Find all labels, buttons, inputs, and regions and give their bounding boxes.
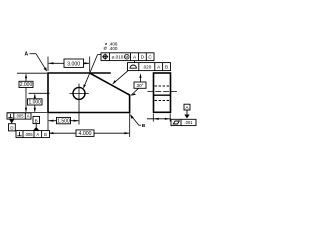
svg-text:⌀: ⌀ — [104, 45, 107, 51]
svg-text:.005: .005 — [24, 132, 33, 137]
svg-text:M: M — [125, 55, 128, 59]
svg-text:.001: .001 — [184, 120, 193, 125]
svg-text:2.000: 2.000 — [20, 82, 33, 88]
svg-text:⌀.010: ⌀.010 — [112, 55, 124, 60]
svg-text:B: B — [165, 65, 168, 70]
svg-text:B: B — [44, 132, 47, 137]
svg-text:.400: .400 — [109, 46, 118, 51]
svg-text:4.000: 4.000 — [79, 131, 92, 137]
svg-text:A: A — [24, 52, 28, 58]
svg-text:B: B — [142, 123, 146, 129]
svg-text:30°: 30° — [137, 83, 144, 88]
svg-text:.005: .005 — [15, 114, 24, 119]
svg-text:B: B — [35, 118, 38, 123]
svg-text:A: A — [36, 132, 39, 137]
svg-text:.020: .020 — [142, 65, 151, 70]
svg-text:A: A — [27, 114, 30, 119]
svg-text:3.000: 3.000 — [67, 61, 80, 67]
svg-text:1.500: 1.500 — [57, 118, 70, 124]
svg-text:1.000: 1.000 — [28, 100, 41, 106]
